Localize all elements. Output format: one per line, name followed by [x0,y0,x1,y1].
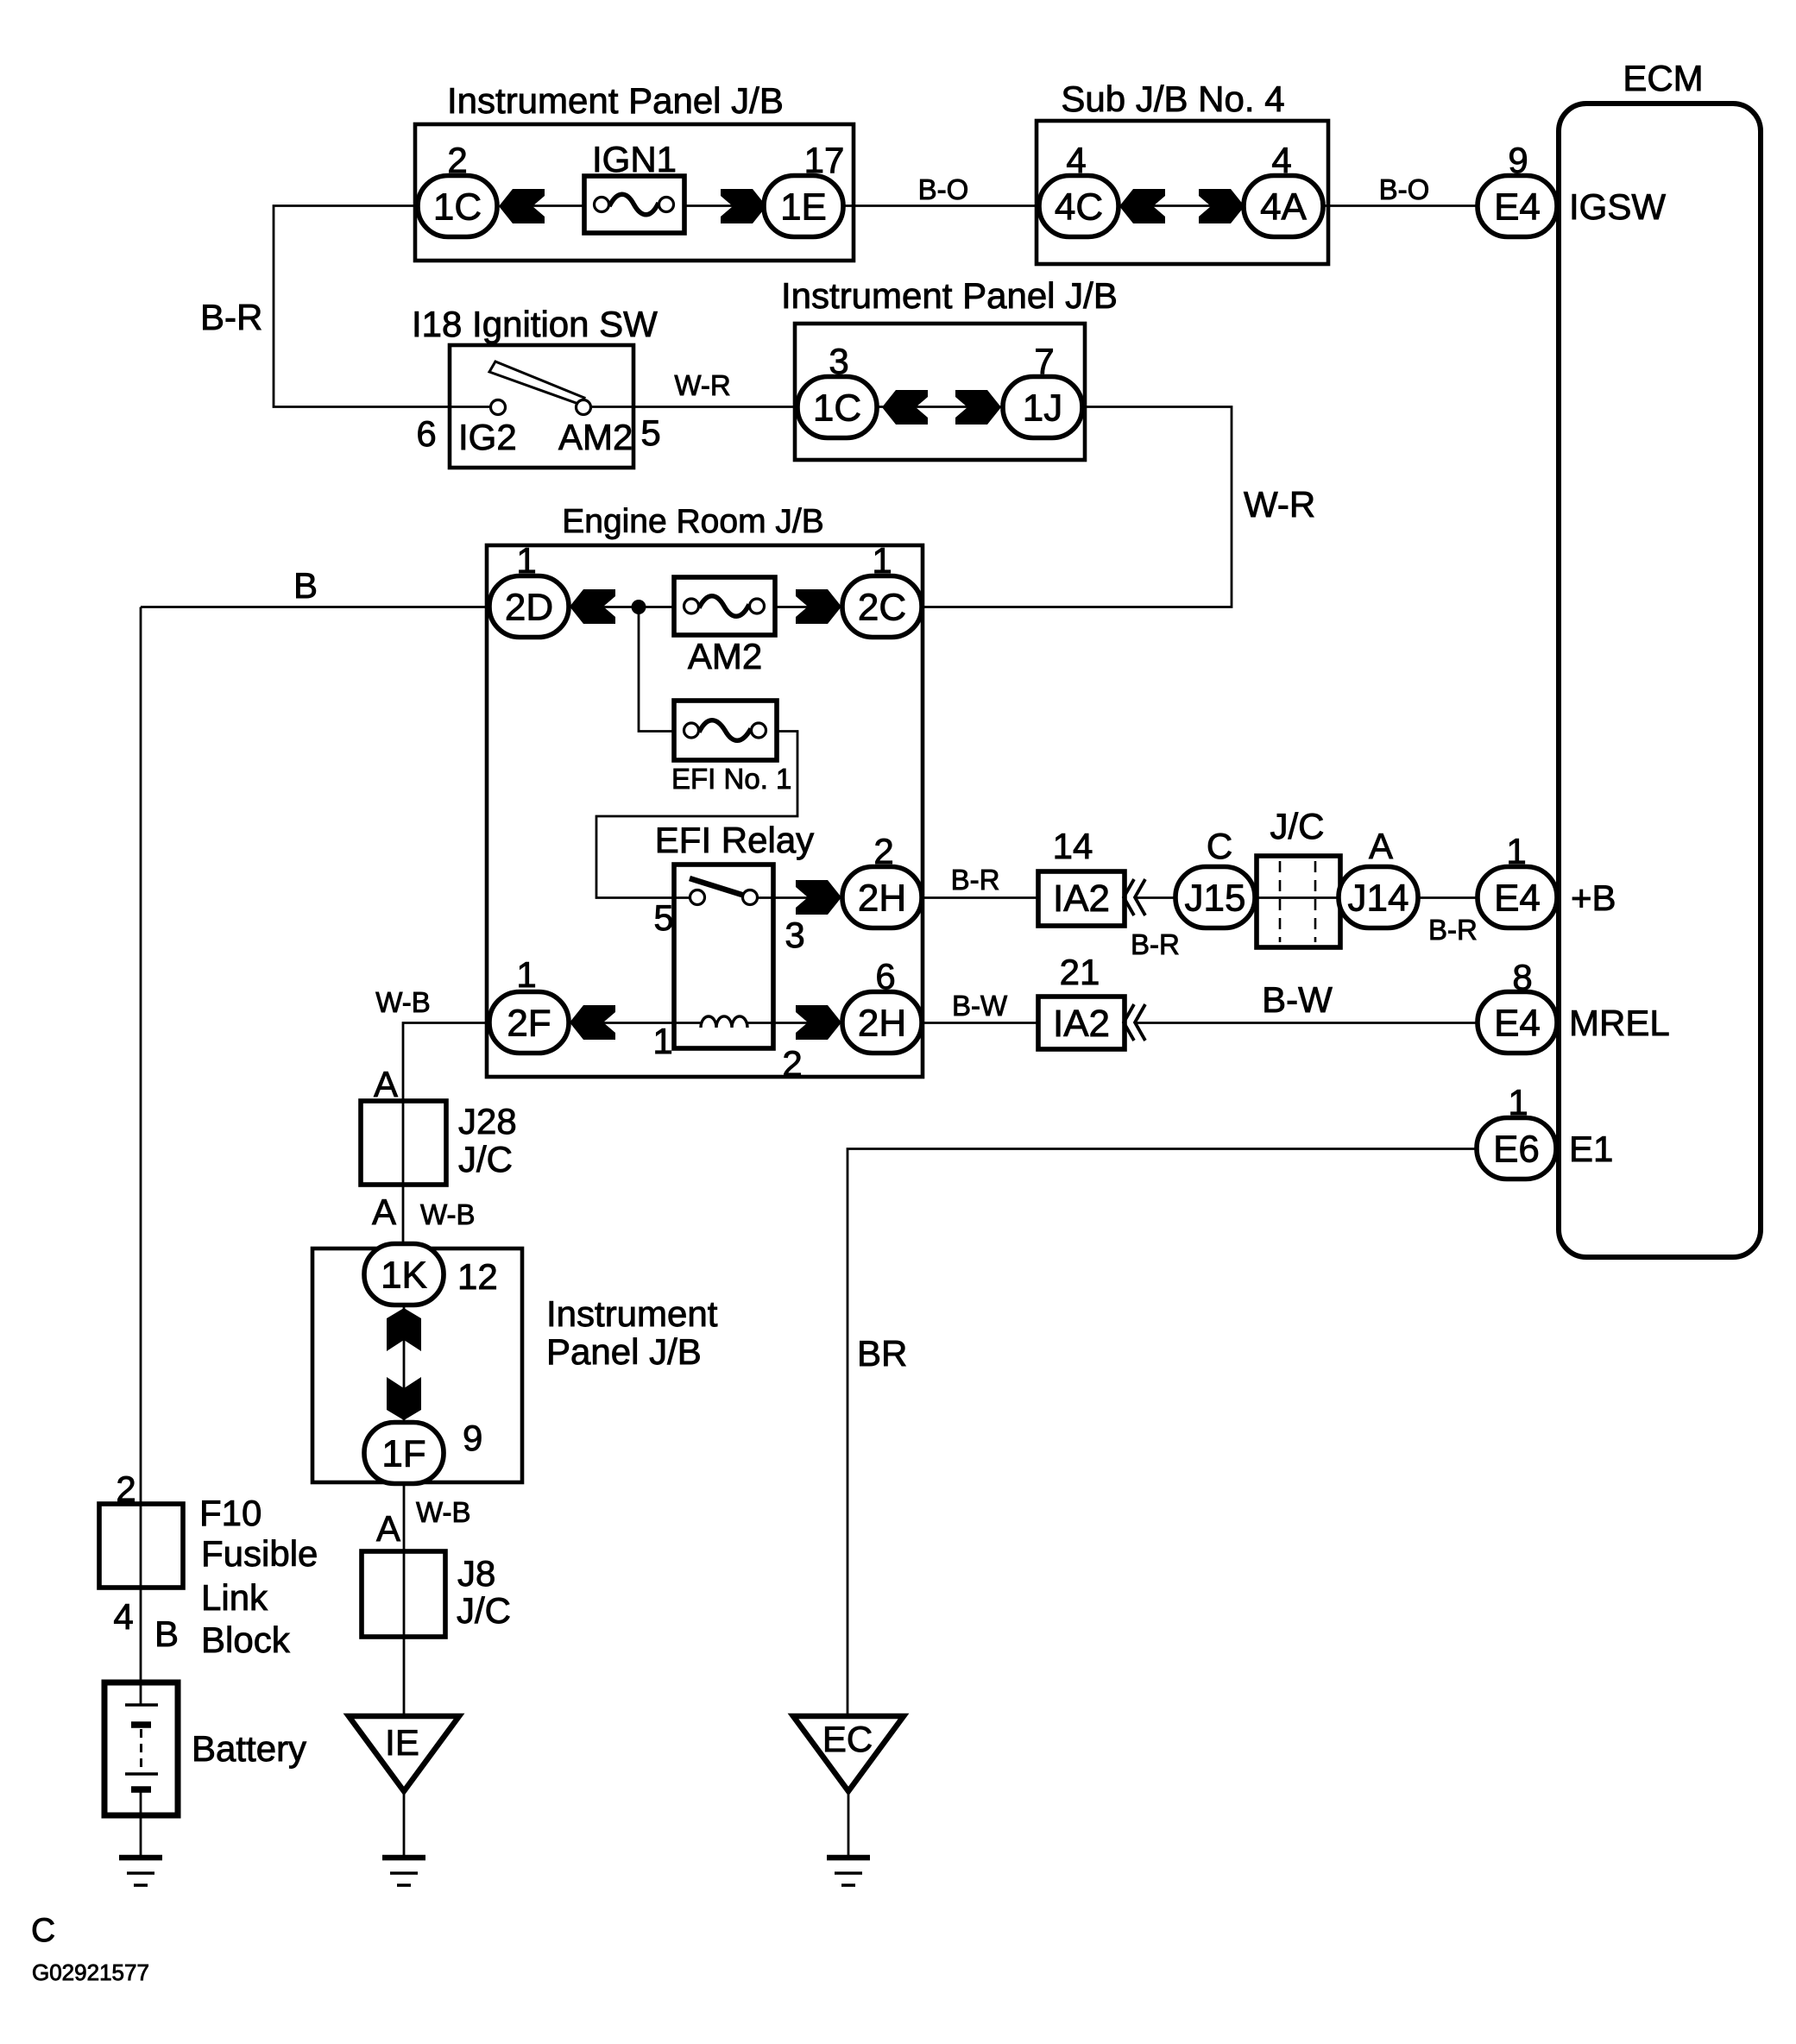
svg-text:W-B: W-B [420,1198,476,1230]
switch contact AM2 [577,400,591,415]
wire relay coil to 2H [747,1022,842,1024]
inline connector chevrons [1124,879,1145,915]
svg-text:C: C [31,1912,55,1949]
wire inside switch to IG2 [450,406,491,408]
connector 1E [764,176,843,237]
svg-text:IE: IE [385,1722,419,1763]
connector E4 pin IGSW [1478,176,1557,237]
svg-text:IGSW: IGSW [1569,186,1666,227]
svg-text:1: 1 [652,1021,672,1061]
svg-text:5: 5 [640,412,660,453]
svg-text:Fusible: Fusible [201,1533,318,1574]
arrow from 1C [882,390,928,425]
wire IE triangle to ground [403,1791,406,1857]
wire J8 to IE ground [403,1637,406,1716]
junction node dot [632,600,646,614]
svg-text:1J: 1J [1023,387,1062,430]
svg-text:E6: E6 [1493,1129,1540,1171]
svg-text:IGN1: IGN1 [592,139,677,179]
svg-text:B: B [293,565,318,606]
wire B-O from 4A to E4 [1323,204,1478,207]
arrow from 2D [570,589,615,624]
svg-text:14: 14 [1053,826,1093,866]
wire 2D to fuse AM2 [569,606,674,608]
svg-text:E4: E4 [1494,186,1541,229]
svg-text:1: 1 [516,954,536,995]
EFI relay box [674,865,773,1048]
connector 1J [1003,377,1082,438]
battery [104,1682,178,1815]
junction block Instrument Panel J/B box [415,124,854,261]
connector 1C [418,176,497,237]
relay contact pin 5 [690,890,705,905]
arrow into 1E [721,189,766,223]
svg-text:IA2: IA2 [1053,877,1110,920]
svg-text:B-R: B-R [200,297,262,337]
junction block Instrument Panel J/B second box [795,324,1085,460]
svg-text:W-B: W-B [375,986,431,1018]
wire 1K to 1F [403,1305,406,1423]
wire relay pin 3 to 2H [758,896,842,899]
svg-text:AM2: AM2 [688,636,762,676]
wire fuse EFI No. 1 to EFI relay contact [596,732,797,898]
svg-text:B: B [154,1613,179,1654]
inline connector chevrons lower [1124,1004,1145,1041]
svg-text:E4: E4 [1494,877,1541,920]
connector 2H (switch side) [842,867,922,928]
svg-text:AM2: AM2 [558,417,633,457]
svg-text:J15: J15 [1185,877,1246,920]
junction connector J14 [1339,867,1418,928]
svg-text:IG2: IG2 [458,417,517,457]
arrow into 2H [796,880,841,915]
svg-text:EFI No. 1: EFI No. 1 [671,763,791,795]
svg-text:B-W: B-W [952,990,1008,1022]
svg-text:2H: 2H [858,1003,906,1045]
connector E4 pin +B [1478,867,1557,928]
svg-text:Instrument Panel J/B: Instrument Panel J/B [781,275,1118,316]
wire battery to ground [140,1789,142,1857]
wire to J15 [1135,896,1175,899]
connector 2H (coil side) [842,992,922,1053]
wire 1C to fuse IGN1 [526,204,584,207]
svg-text:2H: 2H [858,877,906,920]
svg-text:IA2: IA2 [1053,1003,1110,1045]
svg-text:E1: E1 [1569,1129,1613,1169]
svg-text:I18 Ignition SW: I18 Ignition SW [412,304,658,344]
wire battery vertical [140,607,142,1505]
wire B from battery to 2D [141,606,487,608]
arrow into 4C [1119,189,1165,223]
svg-text:2D: 2D [505,587,553,629]
svg-text:B-R: B-R [1428,914,1478,946]
ground triangle EC [793,1716,904,1791]
svg-text:W-B: W-B [416,1496,471,1528]
relay coil [701,1016,747,1028]
svg-text:Instrument Panel J/B: Instrument Panel J/B [447,80,784,121]
svg-text:F10: F10 [199,1493,262,1533]
junction connector J28 box [361,1101,446,1185]
connector 1K [364,1244,444,1305]
arrow up to 1K [387,1308,421,1351]
wire W-B from 2F down to J28 [403,1023,489,1102]
wire 4C to 4A [1119,204,1244,207]
connector 2F [489,992,569,1053]
wire EC triangle to ground [848,1791,850,1857]
svg-text:Panel J/B: Panel J/B [546,1331,702,1372]
connector IA2 (B-W) [1038,997,1125,1049]
svg-text:J8: J8 [457,1553,495,1594]
ignition switch I18 box [450,345,633,468]
svg-text:1C: 1C [813,387,861,430]
arrow into 1J [955,390,1001,425]
ground triangle IE [349,1716,459,1791]
svg-text:C: C [1207,826,1232,866]
wire W-B J28 to 1K [402,1185,405,1244]
svg-text:Engine Room J/B: Engine Room J/B [562,503,824,540]
connector E4 pin MREL [1478,992,1557,1053]
svg-text:J/C: J/C [1270,806,1325,846]
switch contact IG2 [491,400,506,415]
junction block Engine Room J/B box [487,545,923,1077]
svg-text:21: 21 [1060,952,1100,992]
svg-text:1K: 1K [381,1255,427,1297]
connector 4A [1244,176,1323,237]
svg-text:J/C: J/C [457,1590,511,1631]
svg-text:Battery: Battery [192,1728,306,1769]
wire 2F to relay coil [569,1022,701,1024]
ground symbol IE [382,1858,425,1885]
svg-text:Block: Block [201,1619,291,1660]
fusible link block F10 box [99,1504,183,1588]
ground symbol EC [827,1858,870,1885]
svg-text:MREL: MREL [1569,1003,1670,1043]
relay lever [690,878,747,896]
svg-text:5: 5 [653,897,673,938]
svg-text:1E: 1E [780,186,827,229]
arrow down to 1F [387,1377,421,1420]
junction connector J15 [1175,867,1255,928]
svg-text:ECM: ECM [1623,58,1703,98]
wire B-R from 1C down to ignition switch [274,206,450,407]
arrow into 4A [1199,189,1245,223]
wire B-R from 2H to IA2 [922,896,1038,899]
svg-text:4A: 4A [1260,186,1307,229]
wire B-W from 2H to IA2 [922,1022,1038,1024]
svg-text:Link: Link [201,1577,268,1618]
arrow from 2F [570,1005,615,1040]
wire B-W long to E4 MREL [1135,1022,1478,1024]
junction connector J8 box [362,1551,445,1637]
svg-text:3: 3 [785,915,804,955]
svg-text:B-R: B-R [1131,928,1180,960]
svg-text:B-R: B-R [951,864,1000,896]
svg-text:W-R: W-R [674,369,730,401]
fuse IGN1 [584,176,684,233]
svg-text:B-W: B-W [1262,979,1333,1020]
arrow into 2H lower [796,1005,841,1040]
svg-text:Sub J/B No. 4: Sub J/B No. 4 [1061,79,1284,119]
wire B-R J14 to E4 [1418,896,1478,899]
wire W-R from 1J down to 2C [922,407,1232,607]
wire fuse AM2 to 2C [775,606,842,608]
wire F10 to battery [140,1588,142,1705]
svg-text:+B: +B [1571,877,1616,918]
svg-text:12: 12 [457,1256,498,1297]
wire through F10 [140,1504,142,1588]
arrow into 2C [796,589,841,624]
connector E6 [1477,1118,1556,1179]
svg-text:BR: BR [857,1333,907,1374]
svg-text:2F: 2F [507,1003,551,1045]
wire W-R from AM2 to 1C [590,406,797,408]
svg-text:B-O: B-O [1379,173,1430,205]
svg-text:E4: E4 [1494,1003,1541,1045]
svg-text:EC: EC [822,1719,873,1759]
junction connector J/C box [1257,856,1340,947]
svg-text:B-O: B-O [918,173,969,205]
connector 2D [489,576,569,638]
ground symbol battery [119,1858,162,1885]
wire B-O from 1E to 4C [843,204,1039,207]
wire junction down to fuse EFI No. 1 [639,607,674,732]
fuse EFI No. 1 [674,701,777,760]
svg-text:2: 2 [782,1043,802,1084]
svg-text:4: 4 [113,1596,133,1637]
svg-text:A: A [374,1064,398,1104]
ECM box [1559,104,1761,1257]
svg-text:1F: 1F [381,1433,425,1475]
wire through J8 [403,1551,406,1637]
connector 1C (second) [797,377,877,438]
junction block Sub J/B No. 4 box [1037,121,1328,264]
connector IA2 (B-R) [1038,871,1125,926]
connector 2C [842,576,922,638]
connector 1F [364,1423,444,1484]
svg-text:J14: J14 [1348,877,1409,920]
svg-text:Instrument: Instrument [546,1293,718,1334]
svg-text:A: A [372,1192,396,1232]
svg-text:W-R: W-R [1244,484,1315,525]
wire 1F down to J8 [403,1483,406,1551]
wire through J28 [402,1101,405,1185]
switch lever [489,362,584,405]
svg-text:6: 6 [416,413,436,454]
svg-text:J/C: J/C [458,1139,513,1179]
svg-text:2C: 2C [858,587,906,629]
wire BR from E6 to EC ground [848,1149,1477,1717]
svg-text:EFI Relay: EFI Relay [655,820,814,860]
svg-text:G02921577: G02921577 [32,1959,149,1985]
relay contact pin 3 [743,890,758,905]
svg-text:4C: 4C [1055,186,1103,229]
fuse AM2 [674,577,775,635]
wire IGN1 to 1E [684,204,772,207]
svg-text:9: 9 [463,1418,482,1458]
svg-text:A: A [376,1508,400,1549]
svg-text:A: A [1369,826,1393,866]
wire 1C to 1J [877,406,1003,408]
arrow into 1C [499,189,545,223]
svg-text:1C: 1C [433,186,482,229]
junction block Instrument Panel J/B lower box [312,1248,522,1482]
svg-text:J28: J28 [458,1101,517,1141]
wire through J/C [1255,896,1339,899]
connector 4C [1039,176,1119,237]
